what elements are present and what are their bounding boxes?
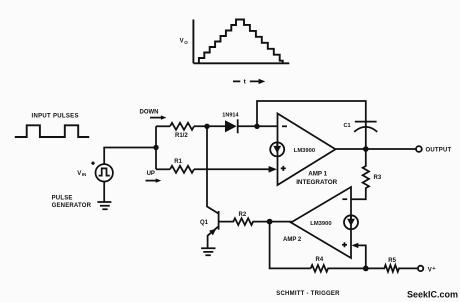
wire vertical diode junction to Q1 collector <box>206 126 208 207</box>
svg-text:+: + <box>432 266 436 272</box>
node diode junction <box>204 124 209 129</box>
svg-text:Q1: Q1 <box>200 220 209 226</box>
svg-text:R1: R1 <box>174 159 182 165</box>
resistor R4 <box>311 265 366 272</box>
staircase output waveform axes <box>193 20 289 64</box>
resistor R3 <box>351 149 369 199</box>
wire AMP2 plus input to R4-R5 node <box>352 243 359 248</box>
svg-text:SeekIC.com: SeekIC.com <box>407 290 458 300</box>
resistor R5 <box>366 265 418 272</box>
diode D1 1N914 <box>225 120 237 132</box>
current source inside AMP2 <box>344 215 358 229</box>
resistor R1 <box>170 166 194 173</box>
ground (Q1 emitter) <box>201 248 215 255</box>
svg-text:R3: R3 <box>374 175 382 181</box>
svg-text:t: t <box>244 78 247 85</box>
svg-text:LM3900: LM3900 <box>294 148 315 154</box>
resistor R1/2 <box>170 123 194 130</box>
svg-text:R5: R5 <box>388 258 396 264</box>
node R4-R5 junction <box>363 266 369 272</box>
svg-text:AMP 2: AMP 2 <box>283 237 302 243</box>
wire AMP1 output to OUTPUT terminal <box>336 148 416 150</box>
svg-text:OUTPUT: OUTPUT <box>426 148 452 154</box>
node output junction <box>363 146 369 152</box>
svg-text:V: V <box>180 39 184 45</box>
terminal V+ <box>418 266 423 271</box>
node AMP2 output junction <box>267 219 273 225</box>
current source inside AMP1 <box>270 142 284 156</box>
svg-text:C1: C1 <box>344 123 351 129</box>
wire junction to AMP2 output <box>270 221 292 223</box>
svg-text:R1/2: R1/2 <box>175 133 188 139</box>
svg-text:R2: R2 <box>239 212 247 218</box>
svg-text:DOWN: DOWN <box>140 110 159 116</box>
svg-text:LM3900: LM3900 <box>310 221 331 227</box>
wire R1/2 to diode <box>194 125 226 127</box>
svg-text:R4: R4 <box>316 257 324 263</box>
resistor R2 with base wire <box>219 218 270 225</box>
op-amp U1 AMP1 LM3900 <box>278 114 336 186</box>
pulse generator VIN source <box>96 164 113 181</box>
svg-text:1N914: 1N914 <box>222 112 239 118</box>
transistor Q1 (PNP) <box>207 207 218 214</box>
node input junction <box>153 145 158 150</box>
wire UP branch left <box>156 168 170 170</box>
terminal OUTPUT <box>416 146 422 152</box>
wire DOWN branch left <box>156 125 170 127</box>
wire input vertical <box>155 126 157 169</box>
wire AMP2 output down to R4 <box>270 222 311 269</box>
svg-text:PULSE: PULSE <box>52 196 73 202</box>
wire diode to AMP1 minus input <box>238 125 278 127</box>
svg-text:V: V <box>77 171 81 177</box>
wire C1 to output node <box>365 122 367 149</box>
svg-text:IN: IN <box>82 172 86 177</box>
svg-text:GENERATOR: GENERATOR <box>52 203 92 209</box>
staircase output waveform trace <box>199 20 283 64</box>
wire VIN top to input node <box>104 148 156 165</box>
op-amp U2 AMP2 LM3900 <box>291 187 351 258</box>
capacitor C1 <box>355 121 377 123</box>
svg-text:INPUT PULSES: INPUT PULSES <box>32 113 79 119</box>
ground (pulse generator) <box>103 181 105 202</box>
svg-text:INTEGRATOR: INTEGRATOR <box>296 179 337 186</box>
svg-text:O: O <box>184 40 188 45</box>
wire R1 to AMP1 plus input <box>194 168 270 170</box>
svg-text:SCHMITT - TRIGGER: SCHMITT - TRIGGER <box>276 291 340 297</box>
time axis arrow t <box>233 80 260 82</box>
svg-text:AMP 1: AMP 1 <box>308 170 327 177</box>
input pulses waveform <box>15 125 89 137</box>
node feedback junction <box>254 124 259 129</box>
wire feedback top rail to C1 <box>257 101 366 126</box>
svg-text:UP: UP <box>147 171 155 177</box>
